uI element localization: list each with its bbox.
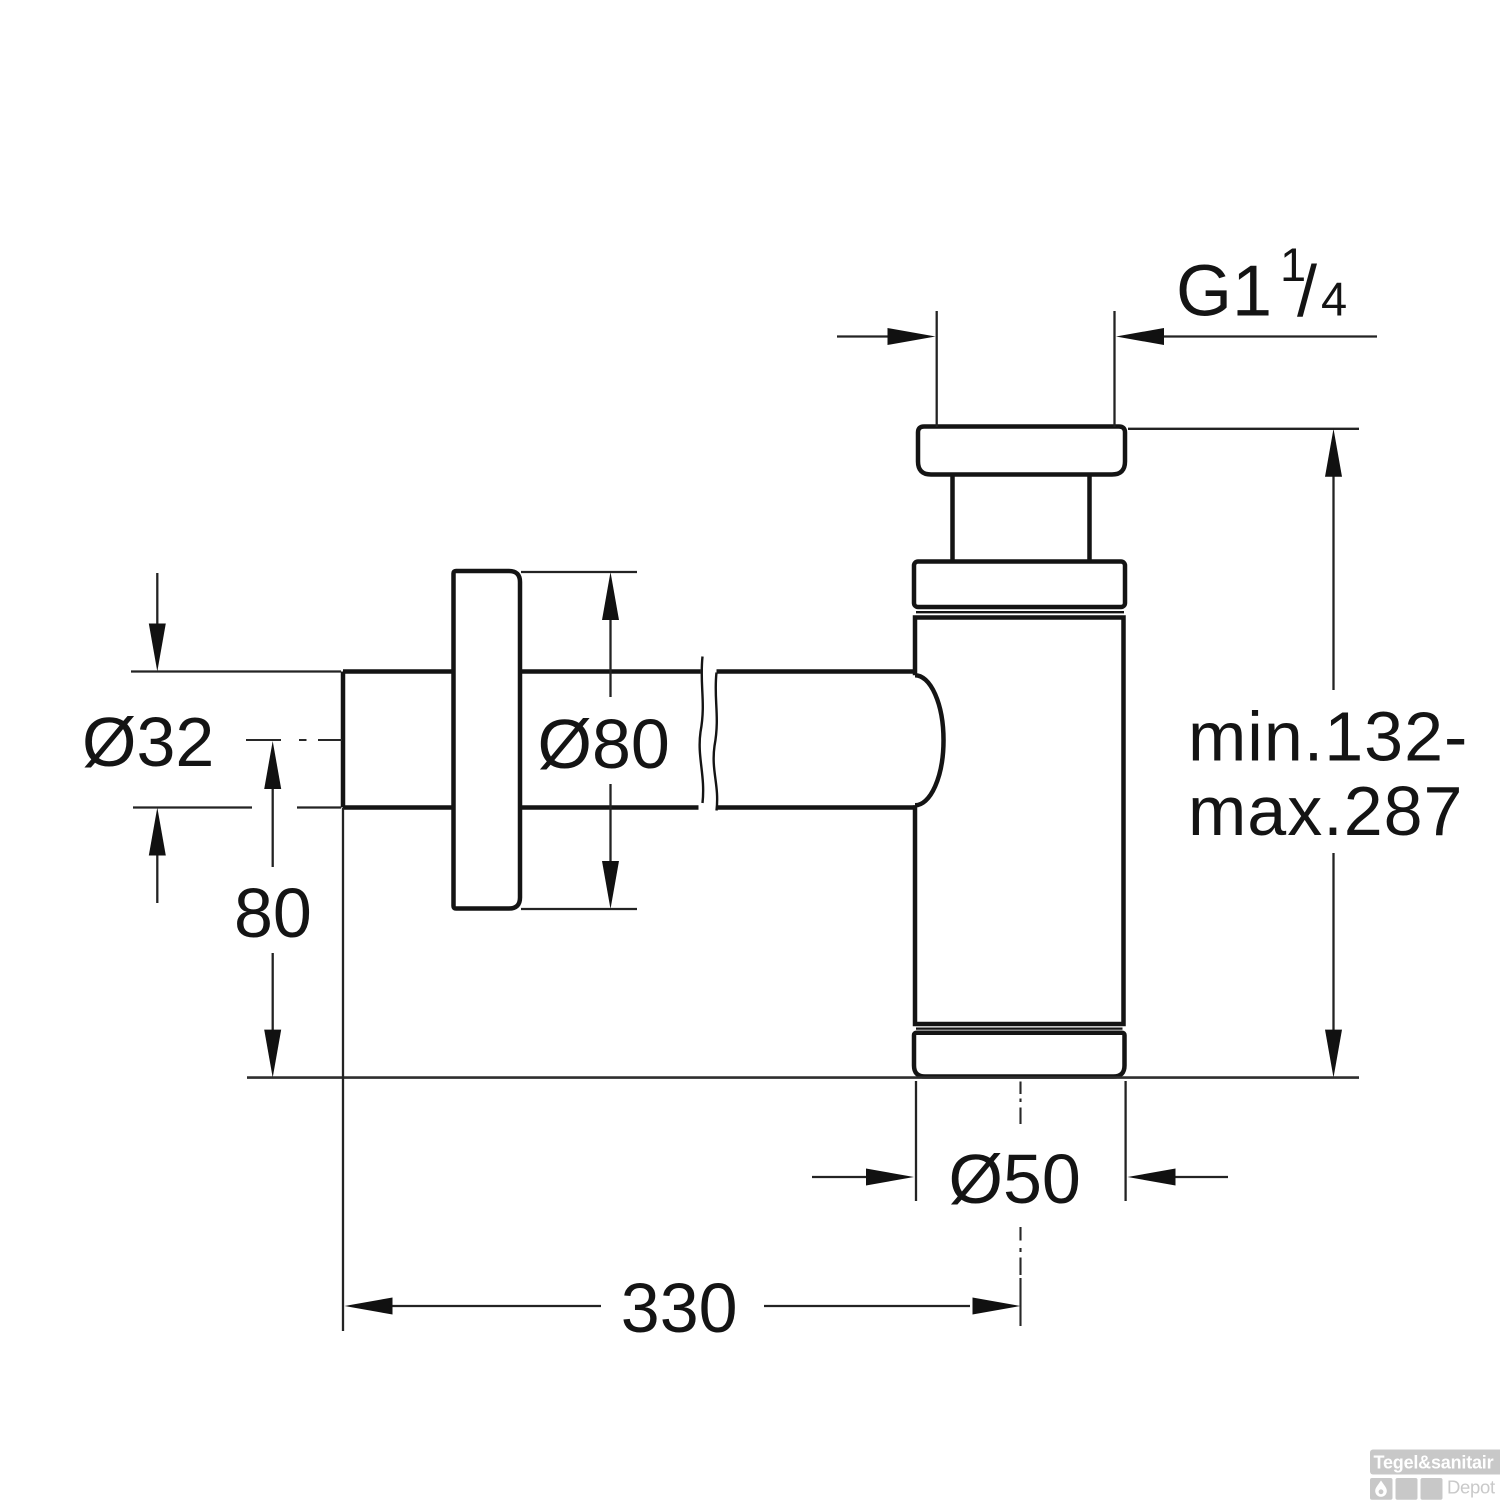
dia32 extension line top (131, 670, 341, 672)
body vertical centerline upper (dash-dot) (1019, 1082, 1021, 1125)
dia80 arrowhead up (602, 572, 619, 620)
svg-text:330: 330 (621, 1269, 738, 1347)
floor reference line (247, 1076, 1359, 1079)
watermark square 3 (1421, 1478, 1443, 1500)
minmax extension line top (1128, 428, 1359, 430)
wall flange (escutcheon) (454, 571, 521, 909)
dia50 arrowhead right (866, 1169, 914, 1186)
dia50 arrow shaft left (812, 1176, 866, 1178)
dia80 arrowhead down (602, 861, 619, 909)
watermark square 1 (1370, 1478, 1393, 1500)
watermark banner box (1370, 1450, 1500, 1475)
dia50 extension line right (1124, 1081, 1126, 1201)
dim80 arrowhead down (264, 1030, 281, 1078)
svg-text:Ø32: Ø32 (82, 703, 214, 781)
groove line above bottom cap (916, 1027, 1123, 1029)
G1 arrowhead right (888, 328, 936, 345)
compression nut (914, 562, 1125, 608)
trap body outline (915, 618, 1124, 1025)
minmax arrowhead down (1325, 1030, 1342, 1078)
svg-text:4: 4 (1321, 273, 1347, 326)
dim330 shaft right (764, 1305, 970, 1307)
inlet pipe left end cap (341, 672, 346, 808)
G1 arrowhead left (1116, 328, 1164, 345)
watermark droplet inner hollow (1379, 1489, 1384, 1494)
svg-text:max.287: max.287 (1188, 772, 1463, 850)
neck right edge (1087, 475, 1092, 562)
dia32 arrowhead up (149, 808, 166, 856)
dim80 shaft upper (272, 788, 274, 867)
dim330 arrowhead left (345, 1298, 393, 1315)
G1 arrow shaft right (1164, 335, 1377, 337)
svg-text:Tegel&sanitair: Tegel&sanitair (1374, 1453, 1494, 1473)
watermark droplet icon (1375, 1481, 1387, 1497)
inlet pipe top edge (343, 669, 915, 674)
pipe centerline (dash-dot) (246, 739, 342, 741)
svg-text:Ø50: Ø50 (949, 1140, 1081, 1218)
dia50 arrowhead left (1128, 1169, 1176, 1186)
dia80 shaft lower (609, 784, 611, 861)
dia80 shaft upper (609, 620, 611, 697)
dia32 arrow shaft upper (156, 573, 158, 625)
groove line under nut (916, 611, 1124, 613)
svg-text:min.132-: min.132- (1188, 698, 1468, 776)
dia80 extension line top (521, 571, 637, 573)
neck left edge (950, 475, 955, 562)
dim330 shaft left (392, 1305, 601, 1307)
svg-text:Ø80: Ø80 (538, 705, 670, 783)
dim330 arrowhead right (973, 1298, 1021, 1315)
pipe break squiggle left (700, 657, 704, 804)
G1 arrow shaft left (837, 335, 888, 337)
bottom cap (914, 1033, 1125, 1077)
dia50 arrow shaft right (1176, 1176, 1229, 1178)
dim330 extension line left (342, 808, 344, 1331)
minmax shaft lower (1332, 853, 1334, 1030)
dim80 arrowhead up (264, 741, 281, 789)
body vertical centerline lower (dash-dot) (1019, 1227, 1021, 1326)
dia32 arrow shaft lower (156, 855, 158, 903)
minmax arrowhead up (1325, 429, 1342, 477)
svg-text:/: / (1297, 252, 1317, 332)
pipe entry arc inside body (915, 675, 944, 805)
svg-text:80: 80 (234, 874, 312, 952)
G1 extension line left (936, 311, 938, 427)
dia50 extension line left (915, 1081, 917, 1201)
dia32 arrowhead down (149, 624, 166, 672)
svg-text:G1: G1 (1176, 252, 1272, 332)
G1 extension line right (1113, 311, 1115, 427)
dia80 extension line bottom (521, 908, 637, 910)
minmax shaft upper (1332, 476, 1334, 690)
dim80 shaft lower (272, 953, 274, 1030)
svg-text:Depot: Depot (1447, 1477, 1495, 1498)
pipe break squiggle right (714, 673, 718, 811)
inlet pipe bottom edge (343, 805, 915, 810)
top flange (918, 427, 1125, 475)
watermark square 2 (1396, 1478, 1418, 1500)
dia32 extension line bottom (133, 806, 341, 808)
